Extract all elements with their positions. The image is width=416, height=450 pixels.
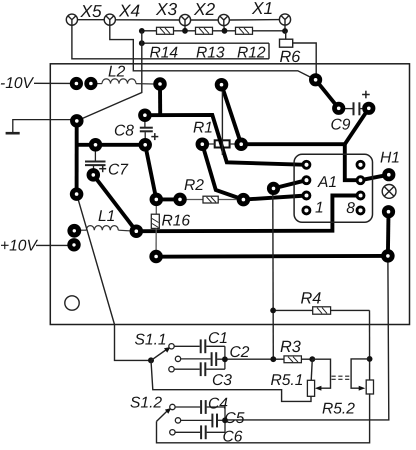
svg-text:C8: C8 xyxy=(114,122,134,139)
resistor R1 xyxy=(209,140,236,147)
svg-text:L1: L1 xyxy=(98,208,115,225)
wire R3 node to R5.1 wiper xyxy=(312,359,330,388)
trace T10 pad256 to pad388 xyxy=(156,254,388,259)
trace T9 H1 bottom pad down xyxy=(386,212,391,256)
capacitor C6 xyxy=(175,420,225,439)
pad R6 in xyxy=(309,73,322,86)
resistor R2 xyxy=(186,196,237,203)
mounting hole xyxy=(65,296,79,310)
node R3 left xyxy=(270,356,276,362)
pin 2R xyxy=(357,177,364,184)
pad ground xyxy=(70,114,84,128)
inductor L1 xyxy=(81,226,131,231)
lamp H1 xyxy=(382,185,396,199)
svg-text:A1: A1 xyxy=(317,174,337,191)
pad C9 right xyxy=(362,102,375,115)
resistor R4 xyxy=(273,307,369,314)
svg-text:C6: C6 xyxy=(223,429,243,446)
wire R5.2 wiper loop xyxy=(351,359,370,388)
wire X1 stem xyxy=(284,25,286,31)
wire X3-X2 xyxy=(191,19,219,21)
capacitor C9 xyxy=(345,91,370,116)
pad +10V bottom xyxy=(67,238,80,251)
svg-text:L2: L2 xyxy=(108,64,126,81)
inductor L2 xyxy=(97,79,155,84)
trace T11 L1 pad to pin 3R xyxy=(136,196,360,232)
wire S1.1 common to R5.1 bottom xyxy=(151,360,311,401)
wire R5.2 bottom to S1.2 common xyxy=(157,393,370,442)
trace C7 pad to L1 pad xyxy=(93,175,136,231)
resistor R3 xyxy=(273,356,312,363)
pad C7 bottom xyxy=(87,168,101,182)
svg-text:R5.2: R5.2 xyxy=(322,401,355,418)
svg-text:S1.2: S1.2 xyxy=(130,395,162,412)
pad top middle xyxy=(215,78,229,92)
pad C8 top xyxy=(138,108,152,122)
svg-text:X2: X2 xyxy=(193,0,216,19)
trace T2 R1 left pad to R2 right pad xyxy=(202,144,243,199)
svg-text:R5.1: R5.1 xyxy=(271,372,304,389)
mechanical coupling dashes xyxy=(332,376,351,379)
pin 1L xyxy=(303,161,310,168)
trace T5 junction down to pin 2R xyxy=(345,144,361,180)
resistor R14 xyxy=(157,27,174,34)
pad -10V b xyxy=(84,77,97,90)
svg-text:C2: C2 xyxy=(230,344,250,361)
svg-text:C9: C9 xyxy=(331,117,351,134)
node R3 right xyxy=(309,356,315,362)
wire X2-X1 xyxy=(229,19,279,21)
wire R6 to pad xyxy=(293,43,317,74)
wire X5-X4 xyxy=(78,19,105,21)
potentiometer R5.1 xyxy=(307,380,314,396)
svg-text:1: 1 xyxy=(315,200,324,217)
svg-text:X3: X3 xyxy=(155,0,178,19)
node X2 junction xyxy=(222,28,228,34)
trace C8 pad to R16 pad xyxy=(145,145,156,200)
wire X3 stem xyxy=(184,25,186,31)
svg-text:C7: C7 xyxy=(108,162,129,179)
wire X4-X3 xyxy=(115,19,179,21)
label frame R14 R13 R12 xyxy=(142,43,270,59)
svg-text:X1: X1 xyxy=(251,0,273,18)
switch S1.2 xyxy=(157,404,181,435)
switch S1.1 xyxy=(148,344,181,372)
pad R1 left xyxy=(196,137,210,151)
terminal X3 xyxy=(179,14,190,25)
svg-text:R3: R3 xyxy=(280,338,301,356)
svg-text:X5: X5 xyxy=(80,1,103,21)
pad left mid xyxy=(70,187,84,201)
pad right low xyxy=(381,249,395,263)
trace T13 pad273 to pin 2L xyxy=(274,180,307,188)
pad A1 bias xyxy=(267,182,280,195)
pad R2 right xyxy=(237,193,251,207)
capacitor C2 xyxy=(181,352,273,366)
terminal X2 xyxy=(218,14,229,25)
wire pad194 diagonal to S1.1 xyxy=(77,194,151,360)
wire X2 stem xyxy=(223,25,226,31)
pad -10V a xyxy=(70,77,83,90)
node C1C2C3 xyxy=(222,356,228,362)
IC A1 xyxy=(294,154,372,222)
wire X5 leg down and frame bottom xyxy=(72,25,269,59)
svg-text:-10V: -10V xyxy=(0,75,35,92)
pad H1 bottom xyxy=(382,205,395,218)
svg-text:H1: H1 xyxy=(380,150,400,167)
pin 2L xyxy=(303,177,310,184)
node chain left corner xyxy=(139,28,145,34)
pad C8 bottom xyxy=(138,138,152,152)
pin 4R xyxy=(357,207,364,214)
svg-text:R1: R1 xyxy=(193,120,213,137)
board outline xyxy=(50,64,409,325)
pad H1 top xyxy=(382,168,395,181)
node R4 left xyxy=(270,308,276,314)
svg-text:R6: R6 xyxy=(280,48,302,66)
pin 3L xyxy=(303,192,310,199)
pad +10V top xyxy=(67,224,81,238)
wire pad388 down to C5 row xyxy=(225,262,389,420)
trace R16 pad to R2 pad xyxy=(156,197,180,201)
trace L2 pad down xyxy=(158,84,162,115)
node X1 junction xyxy=(282,28,288,34)
svg-text:C5: C5 xyxy=(225,410,245,427)
trace gnd pad down to pad194 xyxy=(75,121,79,194)
resistor R16 xyxy=(151,205,159,251)
trace T12 R2 right pad to pin 3L xyxy=(243,196,306,200)
trace T1 C8pad to pin 1L xyxy=(145,115,307,165)
trace T3 pad222 to R1 right pad xyxy=(222,85,242,145)
capacitor C1 xyxy=(174,339,225,359)
node frame top-left xyxy=(139,40,145,46)
pad R16 top xyxy=(150,193,164,207)
pad R2 left xyxy=(173,193,187,207)
trace y144.8 to C7/C8 pads xyxy=(77,143,146,147)
pad C9 left xyxy=(332,102,345,115)
wire pad273 down to R3 node xyxy=(272,193,275,359)
node R5.2 top xyxy=(367,356,373,362)
wire R3 node down to R5.1 top xyxy=(311,359,312,381)
svg-text:X4: X4 xyxy=(118,1,140,21)
pin 3R xyxy=(357,192,364,199)
wire +10V xyxy=(36,244,68,246)
svg-text:+10V: +10V xyxy=(0,238,38,255)
wire X4 leg to board (wire2) xyxy=(110,25,316,80)
trace T8 pin 2R to H1 top pad xyxy=(361,175,389,181)
pin 1R xyxy=(357,161,364,168)
pad C7 top xyxy=(89,138,103,152)
wire -10V xyxy=(34,82,71,84)
trace T7 pad316 to C9 left pad xyxy=(316,80,339,109)
pad L1 right xyxy=(130,224,144,238)
capacitor C5 xyxy=(181,414,225,428)
resistor R6 xyxy=(280,39,293,47)
svg-text:R4: R4 xyxy=(301,290,322,308)
svg-text:8: 8 xyxy=(346,200,355,217)
pin 4L xyxy=(303,207,310,214)
capacitor C8 xyxy=(140,121,159,140)
trace T4 R1 right pad to junction xyxy=(241,142,345,146)
svg-text:C3: C3 xyxy=(212,372,232,389)
svg-text:R2: R2 xyxy=(184,177,204,194)
node X3 junction xyxy=(182,28,188,34)
pad R1 right xyxy=(234,137,248,151)
svg-text:C1: C1 xyxy=(208,330,228,347)
svg-text:R16: R16 xyxy=(162,213,191,230)
pad R16 bottom xyxy=(149,250,163,264)
resistor R6 stub xyxy=(285,31,287,39)
resistor R12 xyxy=(236,27,253,34)
node C4C5C6 xyxy=(222,417,228,423)
wire resistor chain R14-R13-R12 xyxy=(142,30,286,32)
terminal X5 xyxy=(66,14,77,25)
capacitor C7 xyxy=(85,151,106,172)
terminal X4 xyxy=(104,14,115,25)
capacitor C4 xyxy=(175,400,225,420)
wire R4 right down through R5.2 xyxy=(369,310,371,380)
svg-text:S1.1: S1.1 xyxy=(135,331,167,348)
trace T6 C9 right pad to junction xyxy=(345,108,369,144)
pad L2 right xyxy=(153,77,167,91)
capacitor C3 xyxy=(174,359,225,376)
ground xyxy=(6,120,71,134)
terminal X1 xyxy=(279,14,290,25)
resistor R13 xyxy=(196,27,213,34)
wire pad222 down xyxy=(221,90,223,155)
wire chain to ground pad (W2) xyxy=(77,31,142,121)
potentiometer R5.2 xyxy=(366,380,373,394)
